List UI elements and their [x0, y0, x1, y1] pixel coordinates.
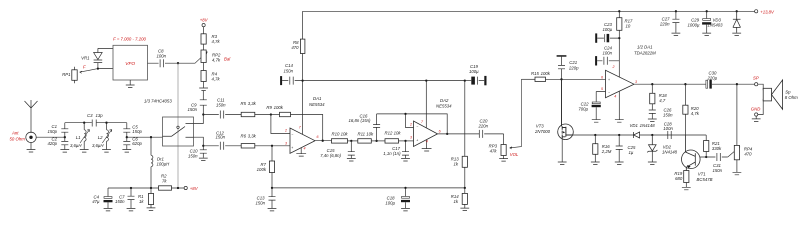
ground (C15) [347, 159, 356, 162]
svg-text:Ant: Ant [11, 131, 19, 136]
svg-text:1k: 1k [139, 199, 144, 204]
node (DA2 out) [446, 133, 448, 135]
+8V supply column: terminal [202, 24, 205, 27]
resistor R21 [704, 141, 709, 152]
resistor R4 [201, 71, 206, 82]
node (DA1 inv input / feedback) [270, 113, 272, 115]
DA1 pin4 ground [296, 148, 306, 156]
ground (C22) [592, 120, 601, 123]
svg-text:150n: 150n [216, 102, 226, 107]
GND terminal [755, 113, 758, 116]
svg-text:R9 100k: R9 100k [266, 105, 283, 110]
potentiometer RP1 [72, 70, 77, 81]
capacitor C26 [649, 110, 656, 119]
node (C9/C11) [202, 113, 204, 115]
capacitor C3 [92, 120, 96, 127]
op-amp DA1 NE5534 [290, 128, 315, 153]
capacitor C31 [706, 153, 728, 161]
svg-text:1,1n (1n): 1,1n (1n) [383, 151, 401, 156]
svg-text:+8V: +8V [200, 18, 209, 23]
svg-text:2N7000: 2N7000 [534, 129, 551, 134]
wire top rail of bandpass [65, 122, 127, 124]
capacitor C11 [203, 111, 241, 119]
node (C15 tap) [350, 140, 352, 142]
potentiometer RP4 wiper arrow [728, 147, 740, 157]
antenna connector XW1 [26, 132, 36, 142]
svg-text:100µ: 100µ [603, 27, 613, 32]
TDA output wire [634, 83, 706, 85]
resistor R10 [332, 139, 348, 143]
svg-text:4,7k: 4,7k [212, 39, 221, 44]
svg-text:+13,8V: +13,8V [760, 9, 775, 14]
svg-text:1/3 74HC4053: 1/3 74HC4053 [144, 98, 172, 103]
ground (antenna) [27, 143, 36, 153]
svg-text:150p: 150p [132, 129, 142, 134]
svg-text:VD1 1N4148: VD1 1N4148 [630, 123, 656, 128]
capacitor C8 [148, 59, 179, 67]
inductor L1 (variable) [84, 123, 86, 150]
node (R16 tap) [594, 134, 596, 136]
svg-text:100µ: 100µ [385, 200, 395, 205]
capacitor C27 [672, 11, 679, 33]
VT3 source to ground [558, 137, 567, 165]
inductor Dr1 [151, 137, 153, 188]
node (C7 tap) [130, 187, 132, 189]
svg-text:1k: 1k [453, 161, 458, 166]
ground (C17) [401, 159, 410, 162]
node (pin2 drop) [404, 113, 406, 115]
capacitor C2 [61, 137, 68, 149]
node (L1 top) [83, 122, 85, 124]
node (C1/C2 junction) [64, 136, 66, 138]
svg-text:1µ: 1µ [629, 150, 634, 155]
svg-text:R10 10k: R10 10k [332, 131, 349, 136]
capacitor C15 [348, 141, 355, 158]
divider riser [464, 81, 466, 157]
svg-text:6: 6 [317, 135, 319, 139]
resistor R1 [148, 194, 153, 205]
svg-text:7: 7 [299, 126, 302, 130]
svg-text:3,6µH: 3,6µH [92, 143, 104, 148]
svg-text:1k: 1k [453, 199, 458, 204]
capacitor C10 [200, 146, 207, 158]
capacitor C23 (electrolytic) [595, 33, 597, 42]
svg-text:F: F [83, 65, 86, 70]
+8V terminal (left) [184, 186, 187, 189]
svg-text:620p: 620p [132, 141, 142, 146]
capacitor C7 [128, 188, 135, 208]
resistor R6 [241, 144, 255, 148]
ground (L2) [102, 150, 111, 153]
capacitor C19 (electrolytic decoupling) [465, 80, 471, 82]
svg-text:C3: C3 [87, 113, 93, 118]
capacitor C30 (electrolytic output) [706, 80, 708, 88]
speaker Sp 8 Ohm [758, 84, 763, 114]
potentiometer RP3 (VOL) [503, 134, 505, 145]
svg-text:680: 680 [675, 176, 683, 181]
diode VD1 1N4148 [633, 132, 639, 138]
svg-text:470: 470 [291, 45, 299, 50]
capacitor C29 (electrolytic) [706, 11, 708, 18]
op-amp DA2 NE5534 [414, 121, 438, 147]
svg-text:150n: 150n [115, 199, 125, 204]
wiper wire RP1 (F) [80, 69, 98, 74]
svg-text:F = 7.000 - 7.200: F = 7.000 - 7.200 [113, 37, 146, 42]
SP terminal [755, 83, 758, 86]
potentiometer RP4 [734, 145, 739, 159]
svg-text:100n: 100n [603, 50, 613, 55]
svg-text:220n: 220n [659, 22, 670, 27]
svg-text:47µ: 47µ [92, 199, 100, 204]
ground (C26) [648, 119, 657, 122]
svg-text:5: 5 [601, 87, 603, 91]
wire LO vertical into mixer [177, 63, 179, 188]
svg-text:150n: 150n [713, 168, 723, 173]
capacitor C5 [123, 123, 130, 138]
svg-text:+8V: +8V [190, 186, 199, 191]
svg-text:3: 3 [410, 136, 412, 140]
svg-text:7,4n (6,8n): 7,4n (6,8n) [320, 153, 341, 158]
svg-text:13p: 13p [96, 113, 104, 118]
svg-text:2: 2 [284, 128, 287, 132]
wire VR1 to VFO [98, 48, 113, 68]
resistor R3 [201, 34, 206, 44]
svg-text:C14: C14 [285, 63, 293, 68]
svg-text:100n: 100n [663, 126, 673, 131]
wire to R21 [705, 135, 707, 141]
ground (L1) [80, 150, 89, 153]
svg-text:7: 7 [421, 120, 424, 124]
svg-text:2: 2 [409, 122, 412, 126]
svg-text:VOL: VOL [510, 152, 519, 157]
resistor R19 [684, 171, 689, 183]
svg-text:1N4148: 1N4148 [662, 150, 678, 155]
svg-text:Bal: Bal [224, 57, 231, 62]
inductor L2 (variable) [107, 123, 109, 150]
resistor R14 [462, 193, 467, 204]
audio amp TDA2822M (1/2 DA1) [606, 70, 635, 97]
svg-text:TDA2822M: TDA2822M [634, 50, 656, 55]
virtual ground rail [272, 187, 465, 189]
ground (C6) [122, 150, 131, 153]
svg-text:4: 4 [426, 140, 428, 144]
svg-text:R11 10k: R11 10k [358, 131, 375, 136]
svg-text:1/2 DA1: 1/2 DA1 [637, 44, 653, 49]
node (R18 tap) [651, 83, 653, 85]
capacitor C17 [402, 141, 409, 158]
ground bar (C21) [557, 55, 567, 57]
resistor R5 [241, 112, 255, 116]
capacitor C20 [479, 130, 503, 138]
svg-text:420p: 420p [47, 141, 57, 146]
node (C16 tap) [375, 140, 377, 142]
svg-text:4: 4 [304, 147, 306, 151]
svg-text:3: 3 [285, 141, 287, 145]
capacitor C21 [558, 57, 565, 80]
svg-text:3,6µH: 3,6µH [70, 143, 82, 148]
svg-text:150n: 150n [663, 112, 673, 117]
svg-text:150n: 150n [188, 153, 198, 158]
svg-text:−: − [608, 90, 610, 94]
svg-text:−: − [291, 132, 293, 136]
svg-text:−: − [416, 125, 418, 129]
node (VD2 tap) [651, 134, 653, 136]
node (C21 tap) [560, 78, 562, 80]
capacitor C28 [668, 131, 671, 139]
svg-text:GND: GND [751, 106, 761, 111]
node (mixer supply) [177, 187, 179, 189]
ground (C25) [615, 162, 624, 165]
svg-text:220n: 220n [478, 123, 489, 128]
detector line [573, 134, 707, 136]
svg-text:100k: 100k [257, 167, 267, 172]
node (LO drive) [177, 62, 179, 64]
DA2 pin7 riser [425, 81, 427, 128]
node (C17 tap) [404, 140, 406, 142]
mid supply rail [303, 80, 465, 82]
MOSFET VT3 2N7000 [558, 124, 574, 140]
node (R14 junction) [464, 187, 466, 189]
node (VT1 base) [705, 156, 707, 158]
svg-text:NE5534: NE5534 [309, 102, 325, 107]
capacitor C12 [203, 142, 241, 150]
svg-text:RP1: RP1 [62, 72, 71, 77]
svg-text:DA2: DA2 [440, 98, 449, 103]
node (DA1 pin7 / mid rail) [301, 79, 303, 81]
resistor R13 [462, 156, 467, 167]
mixer top output stub [193, 115, 203, 124]
svg-text:220µ: 220µ [707, 76, 718, 81]
antenna mast [25, 100, 38, 133]
resistor R17 [617, 18, 622, 31]
ground (C2) [60, 150, 69, 153]
svg-text:R12 10k: R12 10k [385, 131, 402, 136]
node (DA1 out / feedback) [322, 140, 324, 142]
node (C18 tap) [404, 187, 406, 189]
svg-text:2: 2 [612, 65, 615, 69]
node (C29 on top rail) [706, 10, 708, 12]
capacitor C1 [61, 123, 68, 138]
node (C5/C6 junction) [126, 136, 128, 138]
transistor VT1 BC547B [682, 150, 701, 169]
DA2 pin4 ground [422, 140, 432, 151]
capacitor C18 (electrolytic) [405, 188, 407, 196]
+13.8V terminal [755, 10, 758, 13]
DA1 output wire [315, 140, 332, 142]
svg-text:4,7k: 4,7k [212, 58, 221, 63]
capacitor C4 (electrolytic) [107, 188, 109, 196]
resistor R12 [385, 139, 399, 143]
svg-text:220p: 220p [568, 65, 579, 70]
resistor R2 [159, 186, 172, 190]
ground (VFO) [126, 80, 135, 88]
feedback top rail DA2 [377, 114, 448, 134]
top supply rail [303, 10, 755, 12]
node (VR1/RP1 junction) [97, 68, 99, 70]
mixer box 1/3 74HC4053 [163, 117, 194, 146]
capacitor C9 [200, 91, 207, 115]
node (R17 on top rail) [618, 10, 620, 12]
node (R1/Dr1) [150, 187, 152, 189]
mixer switch pivot [177, 126, 179, 128]
mixer bottom output stub [193, 137, 203, 146]
svg-text:C21: C21 [569, 60, 577, 65]
resistor R9 (feedback) [271, 114, 280, 116]
diode VD3 (protection) [733, 11, 741, 33]
svg-text:4,7k: 4,7k [212, 76, 221, 81]
wire LO node to RP2 wiper [178, 52, 207, 64]
capacitor C16 (feedback) [373, 114, 380, 141]
node (R7 tap) [271, 145, 273, 147]
svg-text:700µ: 700µ [578, 107, 588, 112]
svg-text:SP: SP [753, 76, 759, 81]
svg-text:470: 470 [744, 151, 752, 156]
svg-text:16,8n (15n): 16,8n (15n) [349, 118, 372, 123]
capacitor C25 [616, 135, 623, 162]
VFO box G1 [113, 45, 148, 80]
ground (C7) [127, 208, 136, 211]
node (C23/R17) [618, 37, 620, 39]
svg-text:R6 3,3k: R6 3,3k [241, 133, 257, 138]
svg-text:1N5403: 1N5403 [708, 22, 724, 27]
svg-text:3: 3 [635, 80, 637, 84]
node (C25 tap) [618, 134, 620, 136]
node (R13 divider on mid rail) [464, 79, 466, 81]
resistor R16 [594, 135, 596, 144]
node (R20 tap) [684, 83, 686, 85]
ground (R4/C9) [199, 88, 208, 91]
svg-text:VR1: VR1 [81, 56, 90, 61]
svg-text:+: + [608, 78, 610, 82]
svg-text:50 Ohm: 50 Ohm [10, 137, 26, 142]
TDA Vcc pin lead [618, 38, 620, 77]
svg-text:DA1: DA1 [313, 96, 322, 101]
TDA pin4 ground [615, 91, 624, 122]
node (R7/C13) [271, 187, 273, 189]
svg-text:BC547B: BC547B [697, 177, 713, 182]
resistor R11 [358, 139, 372, 143]
varicap VR1 [94, 48, 103, 68]
svg-text:4,7: 4,7 [659, 98, 666, 103]
node (C27 on top rail) [675, 10, 677, 12]
node (C10/C12) [202, 145, 204, 147]
svg-text:L1: L1 [76, 135, 81, 140]
wire antenna to C1 node [36, 136, 65, 138]
svg-text:VT3: VT3 [536, 123, 544, 128]
node (RP4 riser) [736, 83, 738, 85]
svg-text:R15 100k: R15 100k [531, 71, 551, 76]
node (VD3 on top rail) [736, 10, 738, 12]
svg-text:150n: 150n [216, 135, 226, 140]
+8V rail (left) [108, 187, 184, 189]
svg-text:NE5534: NE5534 [436, 104, 452, 109]
svg-text:7k: 7k [162, 178, 167, 183]
resistor R20 [684, 84, 686, 105]
svg-text:150n: 150n [284, 69, 294, 74]
svg-text:150n: 150n [255, 200, 265, 205]
svg-text:100µ: 100µ [469, 69, 479, 74]
ground (C27) [672, 33, 681, 36]
svg-text:R5 3,3k: R5 3,3k [241, 101, 257, 106]
potentiometer RP2 (Bal) [201, 50, 206, 63]
svg-text:150n: 150n [187, 107, 197, 112]
svg-text:VT1: VT1 [698, 171, 706, 176]
svg-text:VFO: VFO [125, 61, 135, 67]
svg-text:100n: 100n [157, 54, 167, 59]
svg-text:8 Ohm: 8 Ohm [785, 95, 798, 100]
mixer switch lever [163, 124, 194, 138]
capacitor C22 (electrolytic, inv input) [596, 92, 605, 102]
resistor R7 [271, 146, 273, 161]
resistor R18 [651, 84, 653, 93]
capacitor C14 [280, 76, 282, 85]
svg-text:6: 6 [601, 75, 603, 79]
node (DA2 pin7 on mid rail) [425, 79, 427, 81]
capacitor C6 [123, 137, 130, 149]
svg-text:+: + [416, 138, 418, 142]
ground (C10) [199, 158, 208, 161]
svg-text:2,2M: 2,2M [601, 149, 612, 154]
svg-text:Sp: Sp [785, 89, 791, 94]
svg-text:+: + [291, 146, 293, 150]
DA1 pin7 riser and resistor R8 [302, 54, 304, 135]
capacitor C24 [595, 56, 597, 65]
ground (C13) [268, 208, 277, 211]
node (Dr1 tap) [150, 136, 152, 138]
svg-text:150p: 150p [47, 129, 57, 134]
svg-text:10: 10 [626, 24, 631, 29]
svg-text:47k: 47k [490, 148, 498, 153]
svg-text:4: 4 [614, 94, 616, 98]
svg-text:6: 6 [439, 129, 441, 133]
capacitor C13 [269, 188, 276, 208]
diode VD2 1N4148 [647, 135, 657, 152]
svg-text:1000µ: 1000µ [687, 22, 700, 27]
svg-text:4,7k: 4,7k [691, 111, 700, 116]
RP3 wiper riser to R15 [510, 79, 522, 149]
node (L2 top) [105, 122, 107, 124]
resistor R15 [535, 77, 546, 81]
svg-text:330k: 330k [712, 146, 722, 151]
svg-text:L2: L2 [98, 135, 103, 140]
svg-text:100µH: 100µH [157, 162, 171, 167]
wire bandpass to mixer [127, 136, 163, 138]
DA2 output wire [438, 133, 480, 135]
